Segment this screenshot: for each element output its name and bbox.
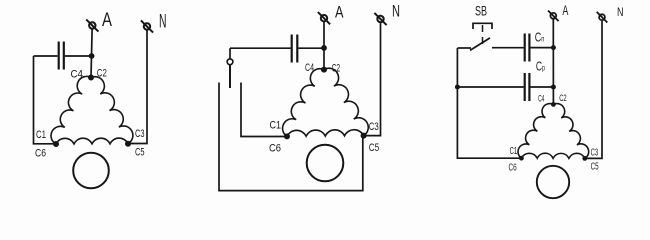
svg-text:N: N <box>159 12 167 33</box>
winding C2-C1 left edge (diagram 3) <box>518 104 553 159</box>
svg-text:C5: C5 <box>591 161 599 172</box>
node C2/C4 dot (diagram 3) <box>551 102 556 107</box>
wire N to node C3/C5 (diagram 1) <box>129 31 147 144</box>
svg-text:C5: C5 <box>369 142 380 154</box>
capacitor Cп (diagram 3) <box>524 34 526 62</box>
wire N to node C3/C5 (diagram 2) <box>365 23 381 136</box>
svg-text:C1: C1 <box>270 120 282 132</box>
terminal A (diagram 1) <box>86 19 98 31</box>
svg-text:C5: C5 <box>135 147 145 159</box>
node C2/C4 dot (diagram 1) <box>88 75 94 81</box>
winding C2-C3 right edge (diagram 2) <box>324 68 368 135</box>
svg-text:C4: C4 <box>538 94 544 104</box>
svg-text:A: A <box>102 10 112 31</box>
wire N rail to node C3/C5 (diagram 3) <box>586 21 602 158</box>
wire A to winding node C2/C4 (diagram 1) <box>91 29 92 77</box>
svg-text:C6: C6 <box>35 148 46 160</box>
svg-text:A: A <box>562 2 568 18</box>
push-button SB left contact wire (diagram 3) <box>458 47 472 49</box>
winding C6-C5 bottom edge (diagram 1) <box>56 138 128 144</box>
svg-text:C2: C2 <box>97 68 107 80</box>
motor rotor circle M1 (diagram 1) <box>73 153 109 189</box>
node C1/C6 dot (diagram 2) <box>284 133 290 139</box>
node C2/C4 dot (diagram 2) <box>321 67 327 73</box>
winding C2-C3 right edge (diagram 3) <box>553 104 588 159</box>
svg-text:C1: C1 <box>36 129 46 141</box>
capacitor C (diagram 1) <box>34 55 58 57</box>
terminal N (diagram 3) <box>597 12 608 23</box>
svg-text:C2: C2 <box>559 93 567 103</box>
push-button SB actuator dashed link (diagram 3) <box>482 25 484 44</box>
capacitor C (diagram 2) <box>230 47 291 49</box>
junction dot capacitor/A-wire (diagram 1) <box>89 53 95 59</box>
svg-text:C3: C3 <box>135 128 145 140</box>
svg-text:N: N <box>617 5 624 19</box>
svg-text:C4: C4 <box>71 68 84 80</box>
wire left rail SB to node C1/C6 (diagram 3) <box>457 48 520 158</box>
push-button SB blade (diagram 3) <box>470 38 490 51</box>
winding C6-C5 bottom edge (diagram 2) <box>287 130 364 137</box>
svg-text:C6: C6 <box>509 163 517 174</box>
svg-text:C6: C6 <box>269 143 281 155</box>
junction dot Ср/A-rail (diagram 3) <box>551 85 556 90</box>
capacitor Ср (diagram 3) <box>457 86 523 88</box>
junction dot capacitor/A-wire (diagram 2) <box>321 45 327 51</box>
plug left socket prong wire to node C3/C5 (diagram 2) <box>219 83 363 191</box>
terminal N (diagram 2) <box>374 13 386 25</box>
motor rotor circle M2 (diagram 2) <box>307 145 344 182</box>
svg-text:C3: C3 <box>369 121 379 133</box>
winding C2-C3 right edge (diagram 1) <box>91 77 133 144</box>
plug pin blade (diagram 2) <box>229 65 231 88</box>
node C3/C5 dot (diagram 1) <box>125 141 131 147</box>
node C1/C6 dot (diagram 3) <box>519 156 524 161</box>
node C3/C5 dot (diagram 2) <box>361 133 367 139</box>
svg-text:C4: C4 <box>305 62 314 74</box>
svg-text:C1: C1 <box>510 146 518 157</box>
winding C6-C5 bottom edge (diagram 3) <box>521 153 584 158</box>
node C1/C6 dot (diagram 1) <box>53 141 59 147</box>
svg-text:N: N <box>392 2 400 21</box>
svg-text:C2: C2 <box>332 63 341 75</box>
terminal N (diagram 1) <box>141 20 153 32</box>
terminal A (diagram 3) <box>548 11 559 22</box>
motor rotor circle M3 (diagram 3) <box>537 166 569 198</box>
plug right socket prong wire to node C1/C6 (diagram 2) <box>241 83 286 137</box>
winding C2-C1 left edge (diagram 1) <box>51 76 91 144</box>
push-button SB bracket (diagram 3) <box>473 23 492 29</box>
wire A to node C2/C4 (diagram 2) <box>323 22 325 70</box>
push-button SB right contact wire (diagram 3) <box>492 47 524 49</box>
winding C2-C1 left edge (diagram 2) <box>283 69 324 137</box>
terminal A (diagram 2) <box>318 12 330 24</box>
plug pin contact circle X1 (diagram 2) <box>227 59 233 65</box>
svg-text:C3: C3 <box>591 148 599 159</box>
wire A rail to node C2/C4 (diagram 3) <box>552 19 554 104</box>
svg-text:A: A <box>335 2 344 21</box>
plug pin wire from capacitor (diagram 2) <box>229 48 231 59</box>
junction dot Cп/A-rail (diagram 3) <box>551 45 556 50</box>
wire capacitor to node C1/C6 (diagram 1) <box>34 56 56 144</box>
node C3/C5 dot (diagram 3) <box>582 156 587 161</box>
junction dot Ср/left-rail (diagram 3) <box>455 85 460 90</box>
svg-text:SB: SB <box>475 3 487 19</box>
